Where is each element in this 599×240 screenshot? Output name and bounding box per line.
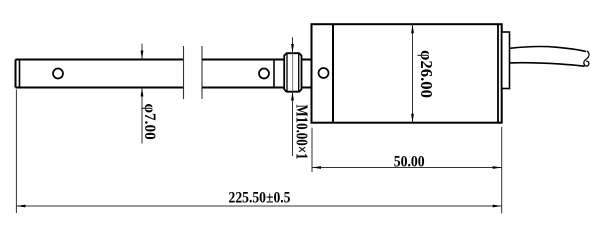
dim phi7 lower arrowhead (141, 88, 144, 97)
dim phi26 line (412, 24, 414, 123)
dim phi7 upper arrowhead (141, 51, 144, 60)
break line left (183, 46, 185, 99)
cable broken end (584, 51, 589, 66)
dim 225.5 left arrowhead (16, 205, 25, 208)
dim phi7 upper extension with arrow (141, 44, 143, 60)
threaded collar M10 outline (284, 53, 301, 91)
dim 50 right extension line (shared) (501, 127, 503, 214)
dim 50 right arrowhead (493, 166, 502, 169)
break line right (201, 46, 203, 99)
svg-text:φ7.00: φ7.00 (141, 104, 158, 140)
rod left end cap inner line (19, 60, 21, 88)
dim phi26 bottom arrowhead (411, 114, 414, 123)
dim 225.5 line (16, 205, 501, 207)
dim M10 upper extension with arrow (292, 37, 294, 53)
cable bottom edge (510, 63, 585, 67)
body outline (312, 24, 502, 123)
rod shoulder line (273, 60, 275, 88)
dim 50 left extension line (311, 128, 313, 172)
svg-text:50.00: 50.00 (394, 153, 425, 170)
dim phi26 top arrowhead (411, 24, 414, 33)
collar chamfer line left (286, 53, 288, 91)
collar centre thin line (292, 53, 294, 91)
rod segment 1 outline (16, 60, 184, 88)
body right cap line (497, 24, 499, 123)
svg-text:225.50±0.5: 225.50±0.5 (229, 190, 291, 207)
body flange line (332, 24, 334, 123)
svg-text:φ26.00: φ26.00 (417, 50, 436, 98)
dim 50 left arrowhead (312, 166, 321, 169)
collar chamfer line right (298, 53, 300, 91)
rod hole 2 (259, 69, 269, 79)
dim 50 line (312, 167, 502, 169)
dim M10 upper arrowhead (291, 44, 294, 53)
dim M10 lower extension with arrow (292, 92, 294, 157)
svg-text:M10.00×1: M10.00×1 (293, 105, 312, 160)
dim 225.5 left extension line (15, 90, 17, 214)
dim 225.5 right arrowhead (493, 205, 502, 208)
dim phi7 lower extension with arrow (141, 88, 143, 144)
flange hole (319, 68, 329, 78)
cable gland (502, 32, 510, 89)
rod hole 1 (53, 69, 63, 79)
rod segment 2 outline (202, 60, 285, 88)
neck between collar and body (302, 60, 312, 88)
cable top edge (510, 47, 587, 52)
dim M10 lower arrowhead (291, 92, 294, 101)
